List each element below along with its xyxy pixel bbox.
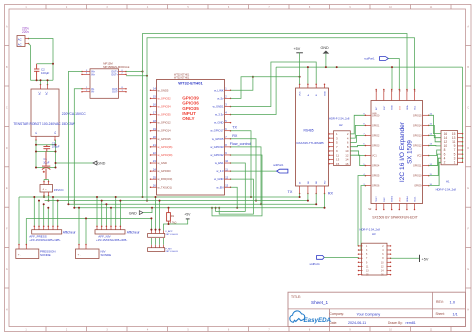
pin 9 right of WT32 w_GPIO32: [225, 154, 231, 156]
svg-text:SX 1509: SX 1509: [407, 140, 414, 164]
pin right 3 of MP1584: [119, 88, 127, 90]
junction bus D left: [73, 207, 75, 209]
wire RX to bus B: [231, 139, 257, 201]
svg-text:w_EN1: w_EN1: [215, 161, 224, 165]
svg-text:w_RX0(IO3): w_RX0(IO3): [158, 177, 173, 181]
pin 10 right of WT32 w_EN1: [225, 162, 231, 164]
svg-text:H: H: [467, 308, 469, 311]
junction wEN on bus D: [236, 207, 238, 209]
svg-text:GND2: GND2: [392, 195, 394, 202]
wire TX to bus A: [231, 131, 252, 197]
wire AC pins up to loop: [40, 80, 42, 84]
pin 9 of H2: [329, 150, 334, 152]
pin top 3 of APP_PRESS: [159, 231, 161, 234]
svg-text:GPIO14: GPIO14: [413, 124, 422, 127]
svg-text:w_GPIO5: w_GPIO5: [212, 137, 224, 141]
pin 20 left of WT32 w_GPIO15: [151, 138, 157, 140]
pin left VC1 of SX1509: [365, 155, 371, 157]
pin top 1 of APP_NIV: [150, 245, 152, 248]
pin 3 right of WT32 w_GND1: [225, 105, 231, 107]
wire RS485 VCC to +5V: [299, 77, 301, 85]
wire GND net to SX1509 top pin3: [391, 67, 393, 89]
pin 21 left of WT32 w_GPIO(36): [151, 146, 157, 148]
svg-text:SX1509 BY SPARKFUN-EDIT: SX1509 BY SPARKFUN-EDIT: [372, 216, 417, 220]
junction bus taps RS485 drops: [299, 196, 301, 198]
svg-text:Afficheur: Afficheur: [127, 231, 141, 235]
pin top 1 of APP_PRESS: [150, 231, 152, 234]
svg-text:SDA1: SDA1: [406, 196, 409, 202]
svg-text:GND: GND: [392, 105, 394, 110]
pin 15 of H3 left: [359, 274, 363, 276]
pin 2 of NIV SONDE: [85, 245, 87, 250]
svg-text:+5V: +5V: [294, 47, 301, 51]
pin 2 of PRESSION SONDE: [25, 245, 27, 250]
svg-text:GPIO12: GPIO12: [413, 144, 422, 147]
svg-text:w_GPIO00: w_GPIO00: [158, 169, 172, 173]
junction gnd flag on bus D: [151, 207, 153, 209]
junction pin12 loop on bus D: [218, 207, 220, 209]
wire NIV sonde pin2 from bus G: [85, 218, 87, 244]
svg-text:IN-: IN-: [91, 91, 95, 94]
wires H2 to SX1509 left pins: [350, 115, 365, 134]
svg-text:DI: DI: [300, 181, 302, 184]
pin 1 of NIV SONDE: [78, 245, 80, 250]
svg-text:2: 2: [444, 161, 446, 165]
svg-text:GPIO1: GPIO1: [372, 124, 380, 127]
pin 4 right of WT32 w_3.3v: [225, 114, 231, 116]
svg-text:TRST: TRST: [376, 196, 378, 202]
wire bus B: [45, 200, 308, 202]
pin top 15VCC module: [43, 182, 45, 185]
wire display AFF_PRESS pin3 from bus: [43, 204, 45, 226]
pin 6 of AFF_NIV: [119, 226, 121, 229]
svg-text:GPIO5: GPIO5: [372, 175, 380, 178]
pin 3 of AFF_PRESS: [43, 226, 45, 229]
svg-text:H1: H1: [446, 179, 450, 183]
pin left 4 of MP1584: [82, 91, 90, 93]
svg-text:w_GND: w_GND: [214, 177, 223, 181]
junction TX on bus A: [250, 196, 252, 198]
ground net flag near caps: [56, 162, 93, 164]
pin V- of power module: [35, 136, 37, 140]
svg-text:w_GND1: w_GND1: [213, 104, 224, 108]
svg-text:H3: H3: [372, 232, 376, 236]
svg-text:SONDE: SONDE: [40, 253, 51, 257]
wire right rail: [55, 140, 57, 168]
svg-text:+ .: + .: [78, 253, 82, 257]
junction flow on bus C: [260, 203, 262, 205]
junction R1 lead on wire: [168, 223, 170, 225]
svg-text:HDR-F-2.54_2x8: HDR-F-2.54_2x8: [436, 187, 457, 191]
pin AC2 of power module: [47, 85, 49, 90]
pin 12 of H1: [458, 141, 463, 143]
pin left 3 of MP1584: [82, 88, 90, 90]
svg-text:G: G: [467, 268, 469, 271]
pin 24 left of WT32 w_GPIO00: [151, 170, 157, 172]
pin top GND of SX1509: [391, 90, 393, 101]
svg-text:GPIO15: GPIO15: [413, 114, 422, 117]
pin 22 left of WT32 w_GPIO(39): [151, 154, 157, 156]
pin 7 of H3 left: [359, 257, 363, 259]
svg-text:RX: RX: [328, 192, 334, 196]
svg-text:WT32-ETH01: WT32-ETH01: [178, 80, 203, 85]
svg-text:+ .: + .: [18, 253, 22, 257]
EasyEDA logo: [290, 311, 332, 324]
svg-text:1: 1: [454, 161, 456, 165]
pin bottom TRST of SX1509: [375, 204, 377, 210]
svg-text:+5V: +5V: [184, 212, 191, 216]
svg-text:w_GND: w_GND: [214, 121, 223, 125]
svg-text:F_APP: F_APP: [166, 230, 173, 233]
junction RX on bus B: [255, 200, 257, 202]
pin 5 right of WT32 w_GND: [225, 122, 231, 124]
pin top INT of SX1509: [375, 90, 377, 101]
junction GND net mid: [336, 66, 338, 68]
svg-text:C: C: [467, 106, 469, 109]
svg-text:OUT+: OUT+: [111, 73, 118, 76]
wire C1 down to 15VCC module: [44, 179, 49, 181]
wire SX GPIO6 to H3 row2: [359, 186, 366, 251]
pin 2 of H3 right: [387, 245, 391, 247]
button APP_PRESS: [148, 234, 165, 238]
svg-text:D: D: [467, 147, 469, 150]
wire NIV sonde pin1 from bus D: [78, 208, 80, 245]
svg-text:15: 15: [336, 162, 340, 166]
pin 11 of H2: [329, 154, 334, 156]
svg-text:w_GPIO35: w_GPIO35: [158, 113, 172, 117]
button APP_NIV: [148, 248, 165, 252]
wire SX GPIO5 to H3 row1: [358, 176, 365, 246]
wire bottom of AC loop: [31, 79, 54, 81]
pin top RST of SX1509: [383, 90, 385, 101]
junction pin9 loop on bus D: [211, 207, 213, 209]
svg-text:AC: AC: [18, 42, 22, 46]
svg-text:H2: H2: [339, 123, 343, 127]
pin left GPIO2 of SX1509: [365, 134, 371, 136]
pin 5 of AFF_NIV: [115, 226, 117, 229]
wire RS485 pin3b down to bus C: [315, 194, 317, 205]
wire display AFF_PRESS pin4 from bus: [47, 208, 49, 227]
svg-text:2024-06-11: 2024-06-11: [348, 321, 366, 325]
wire MP1584 OUT- to W2 vertical: [126, 75, 147, 77]
pin 5 of H2: [329, 141, 334, 143]
title block outline: [288, 292, 466, 326]
svg-text:16: 16: [345, 162, 349, 166]
pin 9 of H3 left: [359, 261, 363, 263]
junction W1 bottom on bus A: [142, 196, 144, 198]
svg-text:GND: GND: [372, 113, 377, 115]
pin 3 of AFF_NIV: [105, 226, 107, 229]
svg-text:TITLE:: TITLE:: [291, 295, 301, 299]
pin bottom 1 of RS485: [299, 186, 301, 194]
junction OUT- on W2: [146, 75, 148, 77]
svg-text:F_NIV: F_NIV: [166, 249, 173, 251]
pin 15 of H2: [329, 163, 334, 165]
wire button column 4 lower: [163, 238, 165, 245]
svg-text:TX: TX: [232, 126, 237, 130]
pin 4 of H1: [458, 157, 463, 159]
pin 7 of H2: [329, 146, 334, 148]
svg-text:GPIO11: GPIO11: [413, 165, 422, 168]
svg-text:Sheet_1: Sheet_1: [311, 300, 329, 305]
net stub red tick on riser: [73, 200, 75, 204]
svg-text:rem81: rem81: [406, 321, 416, 325]
svg-text:VCC: VCC: [300, 91, 302, 96]
svg-text:2BT1-XH-03: 2BT1-XH-03: [166, 251, 179, 253]
svg-text:+15/-15/NI/NA/485+/485-: +15/-15/NI/NA/485+/485-: [96, 238, 127, 242]
svg-text:Sheet:: Sheet:: [436, 312, 445, 316]
wire display AFF_PRESS pin2 from bus: [38, 201, 40, 227]
svg-text:Your Company: Your Company: [357, 312, 381, 316]
IC U2 SX1509 I2C IO expander: [371, 101, 423, 204]
svg-text:GPIO10: GPIO10: [413, 175, 422, 178]
wire w_3.3v pin4 to GND rail: [231, 67, 277, 114]
svg-text:w_GPIO17: w_GPIO17: [210, 129, 224, 133]
title block divider logo cell: [329, 309, 331, 327]
pin V+ of power module: [54, 136, 56, 140]
svg-text:D: D: [6, 147, 8, 150]
wire button column 1 lower: [150, 238, 152, 245]
svg-text:w_3.3v: w_3.3v: [215, 113, 224, 117]
display module AFF_NIV Afficheur: [95, 230, 125, 234]
svg-text:VDD: VDD: [399, 197, 401, 202]
wire display AFF_NIV pin1 from bus: [96, 197, 98, 226]
svg-text:GND: GND: [97, 161, 105, 165]
pin 10 of H1: [458, 145, 463, 147]
svg-text:10μF: 10μF: [43, 160, 50, 164]
pin 18 left of WT32 w_GPIO12: [151, 122, 157, 124]
pin right GPIO9 of SX1509: [423, 185, 429, 187]
pin right VC2 of SX1509: [423, 155, 429, 157]
pin left GPIO1 of SX1509: [365, 124, 371, 126]
svg-text:w_LINK: w_LINK: [214, 88, 224, 92]
pin 3 of H3 left: [359, 249, 363, 251]
svg-text:EasyEDA: EasyEDA: [304, 317, 332, 324]
wire display AFF_PRESS pin6 from bus: [57, 201, 59, 227]
pin 8 right of WT32 w_GPIO33: [225, 146, 231, 148]
svg-text:scdPort1: scdPort1: [364, 57, 375, 61]
pin AC1 of power module: [40, 85, 42, 90]
pin 12 right of WT32 w_GND: [225, 178, 231, 180]
wire w_GND pin12 loop to bus D: [219, 179, 253, 214]
pin 2 of H1: [458, 161, 463, 163]
wire button column 3 lower: [159, 238, 161, 245]
svg-text:H: H: [6, 308, 8, 311]
wire bus D: [74, 207, 324, 209]
pin top 2 of RS485: [307, 84, 309, 88]
pin bottom GND2 of SX1509: [391, 204, 393, 210]
netport scdPort1 middle: [277, 169, 288, 173]
pin 1 of AC connector: [25, 38, 29, 40]
pin 4 of H3 right: [387, 249, 391, 251]
pin 1 of H3 left: [359, 245, 363, 247]
pin 1 right of WT32 w_LINK: [225, 89, 231, 91]
svg-text:MP1584EN-MODULE: MP1584EN-MODULE: [103, 65, 129, 69]
wire display AFF_PRESS pin5 from bus: [52, 197, 54, 226]
pin 23 left of WT32 w_GND: [151, 162, 157, 164]
pin 4 of AFF_NIV: [110, 226, 112, 229]
capacitor C2: [34, 64, 39, 81]
pin bottom VDD of SX1509: [398, 204, 400, 210]
svg-text:100μF: 100μF: [52, 145, 60, 149]
module U5 RS485 MAX485-TTL: [296, 88, 329, 186]
pin 5 of H3 left: [359, 253, 363, 255]
pin 19 left of WT32 w_GPIO14: [151, 130, 157, 132]
svg-text:+5V: +5V: [422, 257, 429, 261]
junction bus C left: [67, 203, 69, 205]
pin left 2 of MP1584: [82, 73, 90, 75]
pin 5 of AFF_PRESS: [52, 226, 54, 229]
wire mid rail: [36, 151, 56, 153]
svg-text:w_GPIO(39): w_GPIO(39): [158, 153, 173, 157]
svg-text:RO: RO: [325, 180, 327, 184]
pin 6 of H3 right: [387, 253, 391, 255]
pin 8 of H1: [458, 149, 463, 151]
svg-text:w_5v: w_5v: [217, 96, 224, 100]
wire bus C: [68, 203, 316, 205]
svg-text:w_TX0(IO1): w_TX0(IO1): [158, 185, 173, 189]
wire display AFF_NIV pin4 from bus: [110, 208, 112, 227]
junction AC pin taps: [40, 79, 42, 81]
junction GND at SX pin: [391, 66, 393, 68]
pin 4 of AFF_PRESS: [47, 226, 49, 229]
wire AC pin2 down left side: [29, 44, 31, 81]
pin 2 of AC connector: [25, 43, 29, 45]
pin left GPIO0 of SX1509: [365, 114, 371, 116]
pin right GPIO12 of SX1509: [423, 144, 429, 146]
svg-text:SDA: SDA: [406, 105, 409, 110]
pin 2 of AFF_NIV: [101, 226, 103, 229]
junction 15VCC out on buses: [43, 196, 45, 198]
wire I2C bus W1 top: [143, 34, 408, 198]
svg-text:+ −: + −: [42, 187, 47, 191]
pin 15 left of WT32 w_GPIO32: [151, 97, 157, 99]
power flag +5V right of H3: [419, 255, 421, 262]
pin 2 of AFF_PRESS: [38, 226, 40, 229]
title block row line 1: [288, 308, 466, 310]
svg-text:RAXAS5-TTLtRS485: RAXAS5-TTLtRS485: [297, 141, 325, 145]
svg-text:IN+: IN+: [91, 73, 96, 76]
svg-text:Afficheur: Afficheur: [63, 231, 77, 235]
wire R1 bottom to +5V and button column 4: [164, 219, 188, 231]
pin bottom 2 of RS485: [307, 186, 309, 194]
pin 16 of H3 right: [387, 274, 391, 276]
svg-text:w_GND5: w_GND5: [158, 88, 169, 92]
pin right 4 of MP1584: [119, 91, 127, 93]
junction +5V stem: [299, 76, 301, 78]
regulator module 15VCC: [40, 185, 53, 193]
pin 16 of H1: [458, 133, 463, 135]
svg-text:GPIO3: GPIO3: [372, 144, 380, 147]
pin 17 left of WT32 w_GPIO35: [151, 114, 157, 116]
svg-text:DE: DE: [308, 180, 310, 184]
svg-text:w_GPIO33: w_GPIO33: [210, 145, 224, 149]
svg-text:C: C: [6, 106, 8, 109]
pin 6 of H1: [458, 153, 463, 155]
svg-text:AC: AC: [46, 91, 49, 95]
svg-text:I2C 16 I/O Expander: I2C 16 I/O Expander: [399, 121, 406, 182]
svg-text:SONDE: SONDE: [101, 253, 112, 257]
svg-text:+15/-15/NI/NA/485+/485-: +15/-15/NI/NA/485+/485-: [29, 238, 60, 242]
wire w_EN1 pin10 loop to bus D: [216, 163, 246, 211]
wire cap top rail: [36, 144, 56, 146]
pin 11 right of WT32 w_3.3: [225, 170, 231, 172]
pin 3 of H2: [329, 137, 334, 139]
pin 6 right of WT32 w_GPIO17: [225, 130, 231, 132]
wire H3 right to +5V: [391, 257, 420, 259]
junction rails: [35, 144, 37, 146]
connector PRESSION SONDE: [16, 249, 39, 259]
wire button column 2: [155, 197, 157, 231]
pin top 2 of APP_NIV: [155, 245, 157, 248]
wire MP1584 OUT+ to W1 vertical: [126, 71, 143, 73]
svg-text:RX: RX: [232, 134, 238, 138]
svg-text:1.0: 1.0: [450, 299, 456, 304]
svg-text:TX: TX: [288, 190, 293, 194]
wires SX1509 right pins to H1: [429, 115, 441, 133]
wire MP1584 IN+ to 15V rail vertical: [68, 72, 82, 205]
svg-text:GND: GND: [325, 91, 327, 96]
svg-text:AC: AC: [18, 38, 22, 42]
wire scdPort1 to SX1509 top pin4: [388, 59, 399, 90]
pin top 4 of APP_NIV: [163, 245, 165, 248]
svg-text:S2: S2: [368, 207, 372, 211]
pin left GPIO6 of SX1509: [365, 185, 371, 187]
svg-text:VC1: VC1: [372, 155, 377, 158]
wire scdPort1 lower to H3: [324, 256, 358, 258]
pin bottom SDA1 of SX1509: [406, 204, 408, 210]
wire w_EN pin13 to bus D: [231, 187, 238, 208]
pin top SDA of SX1509: [406, 90, 408, 101]
pin bottom 3 of RS485: [315, 186, 317, 194]
pin right GPIO15 of SX1509: [423, 114, 429, 116]
svg-text:GPIO9: GPIO9: [414, 185, 422, 188]
junction C2 bottom: [36, 79, 38, 81]
svg-text:TENSTAR ROBOT 100-240VAC 15DC5: TENSTAR ROBOT 100-240VAC 15DC5W: [13, 122, 75, 126]
wire RS485 pin2b down to bus B: [307, 194, 309, 201]
svg-text:w_3.3: w_3.3: [216, 169, 224, 173]
wire bus A: [19, 196, 300, 198]
wire button column 2 lower: [155, 238, 157, 245]
capacitor C3: [43, 145, 50, 152]
svg-text:V-: V-: [35, 132, 38, 134]
wire GND net horizontal: [276, 66, 462, 68]
wire w_GND1 to RS485 pin3: [231, 62, 317, 106]
pin 1 of AFF_NIV: [96, 226, 98, 229]
wire w_LINK pin1 riser: [231, 77, 253, 91]
pin left GPIO3 of SX1509: [365, 144, 371, 146]
wire w_3.3 pin11 to netport scdPort1: [231, 170, 277, 172]
svg-text:RST: RST: [384, 105, 386, 110]
pin 10 of H3 right: [387, 261, 391, 263]
header H1 HDR-F-2.54_2x8 right: [441, 131, 458, 165]
pin right GPIO10 of SX1509: [423, 175, 429, 177]
wire button column 1: [150, 218, 152, 230]
display module AFF_PRESS Afficheur: [32, 230, 62, 234]
pin 12 of H3 right: [387, 265, 391, 267]
wire display AFF_NIV pin2 from bus: [101, 201, 103, 227]
wire I2C bus W2 top: [147, 38, 415, 201]
svg-text:15VCC: 15VCC: [54, 188, 65, 192]
svg-text:Company:: Company:: [330, 312, 345, 316]
svg-text:w_EN: w_EN: [216, 185, 223, 189]
pin 1 of AFF_PRESS: [33, 226, 35, 229]
svg-text:Flow_control: Flow_control: [230, 142, 251, 146]
title block divider rev column: [432, 292, 434, 318]
pin top 2 of APP_PRESS: [155, 231, 157, 234]
svg-text:RE: RE: [316, 180, 318, 184]
svg-text:GPIO13: GPIO13: [413, 134, 422, 137]
